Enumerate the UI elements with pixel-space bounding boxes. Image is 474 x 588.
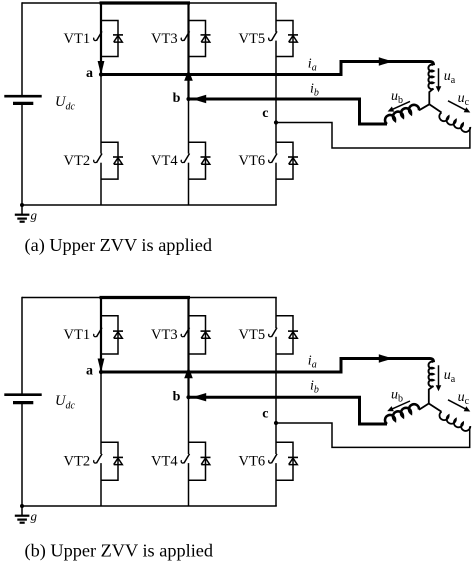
node a junction dot xyxy=(99,370,103,374)
junction dot at ground node xyxy=(20,203,24,207)
current arrow ia xyxy=(379,57,393,65)
svg-text:ub: ub xyxy=(391,89,403,106)
transistor VT4 gate hook xyxy=(181,460,184,463)
wire leg a upper through VT1 (conducting) xyxy=(100,298,102,373)
winding uc (phase c coil) xyxy=(439,113,470,132)
transistor VT3 switch lever xyxy=(184,31,190,40)
svg-text:c: c xyxy=(262,106,268,121)
diode of VT1 (triangle) xyxy=(114,332,123,339)
wire leg a upper through VT1 (conducting) xyxy=(100,3,102,75)
freewheeling diode branch of VT5 xyxy=(276,316,293,354)
svg-text:VT1: VT1 xyxy=(64,31,91,47)
wire leg c lower to VT6 xyxy=(275,423,277,454)
diode of VT3 (cathode bar) xyxy=(201,34,211,36)
svg-text:VT6: VT6 xyxy=(239,454,266,470)
node c junction dot xyxy=(274,120,278,124)
wire top rail left (left rail to leg a) xyxy=(22,297,101,299)
voltage arrow uc xyxy=(448,400,468,410)
transistor VT5 gate hook xyxy=(269,38,272,41)
wire leg c below VT6 to bottom rail xyxy=(275,463,277,506)
svg-text:Udc: Udc xyxy=(55,94,75,113)
diode of VT1 (cathode bar) xyxy=(113,34,123,36)
diode of VT5 (triangle) xyxy=(289,332,298,339)
svg-text:ua: ua xyxy=(444,368,456,385)
svg-text:VT5: VT5 xyxy=(239,327,266,343)
transistor VT1 switch lever xyxy=(96,328,102,337)
wire leg c below VT6 to bottom rail xyxy=(275,163,277,205)
wire winding ua to star point xyxy=(429,89,433,105)
transistor VT6 gate hook xyxy=(269,460,272,463)
transistor VT4 gate hook xyxy=(181,160,184,163)
wire star point to winding uc xyxy=(429,404,442,412)
svg-text:VT3: VT3 xyxy=(151,31,178,47)
freewheeling diode branch of VT1 xyxy=(101,316,118,354)
node b junction dot xyxy=(186,97,190,101)
wire winding ua to star point xyxy=(429,386,434,404)
wire leg c below VT5 to node c xyxy=(275,337,277,423)
current arrow ia xyxy=(379,354,393,362)
current arrow up through leg b xyxy=(184,367,193,378)
freewheeling diode branch of VT4 xyxy=(189,442,206,480)
svg-text:(b) Upper ZVV is applied: (b) Upper ZVV is applied xyxy=(25,541,214,562)
diode of VT5 (triangle) xyxy=(289,36,298,43)
wire leg a below VT2 to bottom rail xyxy=(100,463,102,506)
freewheeling diode branch of VT5 xyxy=(276,21,293,57)
wire winding ub to star point xyxy=(419,104,429,110)
voltage arrow ub xyxy=(390,401,410,410)
diode of VT1 (cathode bar) xyxy=(113,330,123,332)
node c junction dot xyxy=(274,421,278,425)
svg-text:VT2: VT2 xyxy=(64,153,91,169)
wire leg b lower to VT4 xyxy=(188,397,190,454)
wire bottom rail xyxy=(22,505,277,507)
winding uc (phase c coil) xyxy=(440,412,471,431)
svg-text:b: b xyxy=(173,389,181,404)
transistor VT2 switch lever xyxy=(96,154,102,163)
node a junction dot xyxy=(99,72,103,76)
freewheeling diode branch of VT2 xyxy=(101,442,118,480)
transistor VT6 gate hook xyxy=(269,160,272,163)
wire ib conducting path from winding ub to node b xyxy=(189,99,388,124)
wire top rail right (leg b to leg c) xyxy=(189,2,277,4)
svg-text:VT2: VT2 xyxy=(64,454,91,470)
diode of VT2 (triangle) xyxy=(114,158,123,165)
transistor VT3 switch lever xyxy=(184,328,190,337)
svg-text:ia: ia xyxy=(308,354,317,371)
diode of VT2 (triangle) xyxy=(114,458,123,465)
transistor VT6 switch lever xyxy=(271,154,277,163)
wire leg b upper through VT3 (conducting) xyxy=(187,3,189,99)
svg-text:Udc: Udc xyxy=(55,393,75,412)
transistor VT5 gate hook xyxy=(269,334,272,337)
diode of VT5 (cathode bar) xyxy=(288,330,298,332)
svg-text:a: a xyxy=(86,66,93,81)
svg-text:uc: uc xyxy=(458,390,470,407)
wire ib conducting path from winding ub to node b xyxy=(189,397,388,424)
diode of VT3 (triangle) xyxy=(201,36,210,43)
svg-text:g: g xyxy=(31,208,38,223)
wire leg a lower to VT2 xyxy=(100,372,102,454)
ground symbol g xyxy=(21,205,23,215)
transistor VT2 gate hook xyxy=(94,160,97,163)
wire leg b below VT4 to bottom rail xyxy=(188,163,190,205)
freewheeling diode branch of VT6 xyxy=(276,442,293,480)
svg-text:VT1: VT1 xyxy=(64,327,91,343)
wire node c to winding uc xyxy=(276,423,470,447)
diode of VT4 (triangle) xyxy=(201,158,210,165)
current arrow down into node a xyxy=(98,359,105,373)
transistor VT1 gate hook xyxy=(94,334,97,337)
wire leg b upper through VT3 (conducting) xyxy=(187,298,189,398)
junction dot at ground node xyxy=(20,504,24,508)
wire leg c below VT5 to node c xyxy=(275,41,277,123)
diode of VT4 (triangle) xyxy=(201,458,210,465)
winding ub (phase b coil) xyxy=(385,105,419,124)
wire top rail left (left rail to leg a) xyxy=(22,2,101,4)
battery Udc positive plate xyxy=(4,393,41,396)
svg-text:(a) Upper ZVV is applied: (a) Upper ZVV is applied xyxy=(25,235,213,256)
freewheeling diode branch of VT4 xyxy=(189,142,206,179)
transistor VT5 switch lever xyxy=(271,31,277,40)
svg-text:VT4: VT4 xyxy=(151,454,178,470)
diode of VT6 (cathode bar) xyxy=(288,156,298,158)
transistor VT2 switch lever xyxy=(96,454,102,463)
wire leg c upper to VT5 xyxy=(275,298,277,329)
wire left rail lower xyxy=(21,103,23,205)
battery Udc negative plate xyxy=(13,102,33,105)
wire left rail upper xyxy=(21,297,23,395)
diode of VT3 (triangle) xyxy=(201,332,210,339)
current arrow ib xyxy=(192,95,206,103)
diode of VT6 (triangle) xyxy=(289,458,298,465)
voltage arrow uc xyxy=(448,101,468,111)
transistor VT4 switch lever xyxy=(184,154,190,163)
svg-text:ib: ib xyxy=(310,82,319,99)
freewheeling diode branch of VT3 xyxy=(189,21,206,57)
battery Udc negative plate xyxy=(13,401,33,404)
wire leg c upper to VT5 xyxy=(275,3,277,32)
wire left rail lower xyxy=(21,403,23,506)
transistor VT6 switch lever xyxy=(271,454,277,463)
svg-text:b: b xyxy=(173,91,181,106)
wire node c to winding uc xyxy=(276,123,470,149)
transistor VT3 gate hook xyxy=(181,334,184,337)
battery Udc positive plate xyxy=(4,95,41,98)
transistor VT2 gate hook xyxy=(94,460,97,463)
wire winding ub to star point xyxy=(419,404,429,410)
diode of VT4 (cathode bar) xyxy=(201,456,211,458)
wire top rail right (leg b to leg c) xyxy=(189,297,277,299)
diode of VT6 (triangle) xyxy=(289,158,298,165)
winding ub (phase b coil) xyxy=(385,404,419,424)
current arrow ib xyxy=(192,393,206,401)
diode of VT5 (cathode bar) xyxy=(288,34,298,36)
svg-text:ua: ua xyxy=(444,69,456,86)
wire left rail upper xyxy=(21,2,23,96)
diode of VT2 (cathode bar) xyxy=(113,156,123,158)
ground symbol g xyxy=(21,506,23,516)
transistor VT4 switch lever xyxy=(184,454,190,463)
node b junction dot xyxy=(186,395,190,399)
wire ia conducting path from node a to winding ua xyxy=(101,359,434,373)
freewheeling diode branch of VT1 xyxy=(101,21,118,57)
wire leg a lower to VT2 xyxy=(100,75,102,154)
winding ua (phase a coil) xyxy=(428,362,433,387)
freewheeling diode branch of VT2 xyxy=(101,142,118,179)
svg-text:VT3: VT3 xyxy=(151,327,178,343)
diode of VT4 (cathode bar) xyxy=(201,156,211,158)
winding ua (phase a coil) xyxy=(428,65,433,90)
svg-text:ib: ib xyxy=(310,379,319,396)
transistor VT3 gate hook xyxy=(181,38,184,41)
current arrow down into node a xyxy=(98,61,105,75)
wire top rail conducting segment (leg a to leg b) xyxy=(100,296,191,299)
wire leg a below VT2 to bottom rail xyxy=(100,163,102,205)
wire leg b below VT4 to bottom rail xyxy=(188,463,190,506)
wire top rail conducting segment (leg a to leg b) xyxy=(100,1,191,4)
svg-text:a: a xyxy=(86,364,93,379)
diode of VT6 (cathode bar) xyxy=(288,456,298,458)
diode of VT1 (triangle) xyxy=(114,36,123,43)
wire leg b lower to VT4 xyxy=(188,99,190,154)
transistor VT1 gate hook xyxy=(94,38,97,41)
diode of VT2 (cathode bar) xyxy=(113,456,123,458)
svg-text:uc: uc xyxy=(458,91,470,108)
freewheeling diode branch of VT6 xyxy=(276,142,293,179)
current arrow up through leg b xyxy=(184,70,193,81)
svg-text:VT4: VT4 xyxy=(151,153,178,169)
wire bottom rail xyxy=(22,204,277,206)
diode of VT3 (cathode bar) xyxy=(201,330,211,332)
voltage arrow ua xyxy=(438,365,440,388)
svg-text:ub: ub xyxy=(391,388,403,405)
svg-text:VT5: VT5 xyxy=(239,31,266,47)
wire star point to winding uc xyxy=(429,104,441,112)
freewheeling diode branch of VT3 xyxy=(189,316,206,354)
wire leg c lower to VT6 xyxy=(275,123,277,154)
wire ia conducting path from node a to winding ua xyxy=(101,62,434,75)
svg-text:ia: ia xyxy=(308,57,317,74)
transistor VT1 switch lever xyxy=(96,31,102,40)
voltage arrow ub xyxy=(390,101,410,110)
svg-text:g: g xyxy=(31,509,38,524)
voltage arrow ua xyxy=(438,68,440,89)
svg-text:c: c xyxy=(262,407,268,422)
transistor VT5 switch lever xyxy=(271,328,277,337)
svg-text:VT6: VT6 xyxy=(239,153,266,169)
